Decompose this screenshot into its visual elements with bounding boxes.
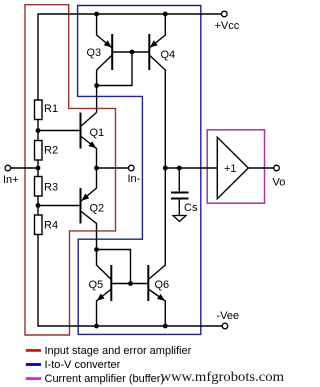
resistor R4 xyxy=(35,215,43,235)
wire: Q2 base to R3/R4 junction xyxy=(38,205,81,207)
svg-text:R3: R3 xyxy=(44,182,58,194)
transistor Q6 (NPN mirror output) xyxy=(131,168,170,326)
resistor R1 xyxy=(35,100,43,120)
wire: I-to-V node to buffer input xyxy=(165,167,217,169)
transistor Q3 (PNP, diode-connected) xyxy=(87,14,133,113)
svg-text:Q3: Q3 xyxy=(87,47,102,59)
node R2/R3 junction xyxy=(36,166,41,171)
svg-text:Q6: Q6 xyxy=(155,279,170,291)
svg-text:Vo: Vo xyxy=(273,177,286,189)
transistor Q1 (NPN input) xyxy=(81,113,105,169)
wire: Q1/Q2 emitters to In- terminal xyxy=(97,167,129,169)
svg-text:I-to-V converter: I-to-V converter xyxy=(45,359,121,371)
svg-text:In+: In+ xyxy=(3,174,19,186)
wire: Q3/Q4 base tie down to Q3 collector xyxy=(97,52,132,86)
svg-text:Q4: Q4 xyxy=(161,49,176,61)
wire: Q2 collector to Q5/Q6 base tie xyxy=(97,250,131,284)
wire: Q1 base to R1/R2 junction xyxy=(38,130,81,132)
transistor Q5 (NPN, diode-connected) xyxy=(89,250,131,327)
node R3/R4 junction xyxy=(36,203,41,208)
legend: input stage key xyxy=(26,349,41,352)
svg-text:Input stage and error amplifie: Input stage and error amplifier xyxy=(45,345,192,357)
svg-text:www.mfgrobots.com: www.mfgrobots.com xyxy=(161,370,285,385)
svg-text:+1: +1 xyxy=(224,163,237,175)
terminal In+ xyxy=(5,165,11,171)
wire: R2 to R3 xyxy=(37,160,39,177)
terminal +Vcc xyxy=(222,11,228,17)
terminal In- xyxy=(129,165,135,171)
svg-text:R2: R2 xyxy=(44,145,58,157)
svg-text:In-: In- xyxy=(128,173,141,185)
svg-text:+Vcc: +Vcc xyxy=(215,20,240,32)
blue outline: I-to-V converter region xyxy=(78,6,201,335)
node Q3/Q4 base junction xyxy=(130,50,135,55)
wire: R1 to R2 xyxy=(37,120,39,141)
node bottom rail left xyxy=(94,324,99,329)
svg-text:-Vee: -Vee xyxy=(217,310,240,322)
node R1/R2 junction xyxy=(36,128,41,133)
svg-text:Current amplifier (buffer): Current amplifier (buffer) xyxy=(45,373,165,385)
legend: current amplifier key xyxy=(26,377,41,380)
capacitor Cs xyxy=(171,168,198,216)
node Q2 collector / Q5 collector xyxy=(94,247,99,252)
legend: I-to-V key xyxy=(26,363,41,366)
wire: R3 to R4 xyxy=(37,196,39,215)
magenta outline: current amplifier (buffer) region xyxy=(207,130,264,203)
wire: buffer output to Vo xyxy=(248,167,273,169)
svg-text:Q1: Q1 xyxy=(90,127,105,139)
terminal -Vee xyxy=(222,323,228,329)
red outline: input stage and error amplifier region xyxy=(25,5,116,335)
svg-text:R4: R4 xyxy=(44,220,58,232)
node Q5/Q6 base junction xyxy=(128,281,133,286)
svg-text:Q2: Q2 xyxy=(90,203,105,215)
op-amp buffer U1 (+1) xyxy=(217,137,248,198)
svg-text:R1: R1 xyxy=(44,103,58,115)
node Cs tap junction xyxy=(177,166,182,171)
svg-text:Cs: Cs xyxy=(184,202,198,214)
terminal Vo xyxy=(274,165,280,171)
node top rail right xyxy=(163,12,168,17)
ground symbol xyxy=(173,216,186,222)
resistor R2 xyxy=(35,141,43,161)
node Q1/Q2 emitter junction xyxy=(94,166,99,171)
transistor Q2 (PNP input) xyxy=(81,168,105,250)
resistor R3 xyxy=(35,177,43,197)
node collector line junction xyxy=(163,166,168,171)
wire: bottom supply rail from R4 bottom corner to -Vee xyxy=(38,235,222,327)
node top rail left xyxy=(94,12,99,17)
wire: In+ terminal to R2/R3 junction xyxy=(11,167,38,169)
wire: top supply rail from R1 top corner to +Vcc xyxy=(38,14,222,100)
node Q3 collector/base tie xyxy=(94,83,99,88)
transistor Q4 (PNP mirror output) xyxy=(132,14,175,168)
node bottom rail right xyxy=(163,324,168,329)
svg-text:Q5: Q5 xyxy=(89,279,104,291)
